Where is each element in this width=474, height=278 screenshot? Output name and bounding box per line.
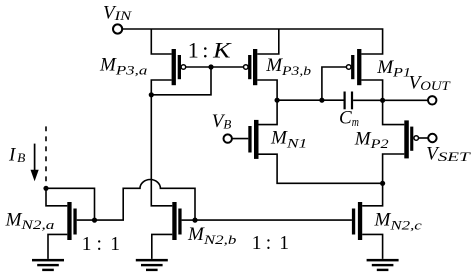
wire gate net hop (95, 180, 196, 221)
ground MN2c (367, 259, 399, 271)
svg-text:1:1: 1:1 (252, 233, 289, 254)
wire MN2a source (48, 234, 67, 259)
wire MP1 gate (322, 67, 346, 100)
wire VIN rail (122, 29, 382, 54)
node mid junction (380, 181, 385, 186)
wire MN1 gate (232, 138, 248, 140)
wire node A (277, 99, 343, 101)
transistor MN2c (352, 202, 362, 240)
terminal VIN (113, 24, 122, 33)
ground MN2b (136, 259, 168, 271)
transistor MN2a (67, 202, 76, 240)
node MP1 gate junction (319, 98, 324, 103)
terminal VB (224, 134, 232, 142)
svg-text:1:1: 1:1 (82, 234, 120, 255)
wire MP3b source (257, 29, 279, 54)
capacitor Cm (344, 92, 354, 110)
wire MN2b source (152, 234, 173, 259)
wire MP1 drain (361, 80, 382, 100)
wire MN2b gate (182, 219, 195, 221)
node IB junction (43, 186, 48, 191)
wire MN2c source (362, 234, 382, 259)
wire MP2 drain (383, 154, 405, 183)
wire MP3a drain to MN2b drain (151, 80, 172, 206)
node MN2a gate junction (92, 218, 97, 223)
wire MP2 source (383, 100, 405, 124)
current source IB arrow (31, 144, 39, 182)
terminal VOUT (428, 96, 436, 104)
ground MN2a (32, 259, 64, 271)
wire IB node (46, 188, 95, 220)
wire MN2a gate (77, 219, 95, 221)
wire MN1 drain (259, 100, 278, 124)
transistor MP2 (404, 120, 418, 158)
terminal VSET (428, 134, 436, 142)
node MP3a gate junction (208, 64, 213, 69)
transistor MP1 (346, 49, 361, 85)
node MP3a drain junction (149, 92, 154, 97)
node A left junction (275, 98, 280, 103)
wire MN1 source to mid node (259, 154, 383, 183)
transistor MN1 (248, 120, 258, 159)
wire MP3b drain (257, 80, 277, 100)
wire MN2a drain (46, 188, 67, 206)
wire MP2 gate to VSET (419, 137, 429, 139)
transistor MP3b (244, 49, 258, 85)
wire VOUT (353, 99, 428, 101)
node MN2b gate junction (192, 218, 197, 223)
node VOUT junction (380, 98, 385, 103)
wire MP3a source (151, 29, 171, 54)
wire gate net to MN2c (195, 219, 352, 221)
wire MN2c drain (362, 183, 382, 206)
wire IB dashed (45, 126, 47, 186)
wire MP3a gate net (151, 67, 243, 95)
transistor MN2b (172, 202, 181, 240)
transistor MP3a (172, 49, 186, 85)
